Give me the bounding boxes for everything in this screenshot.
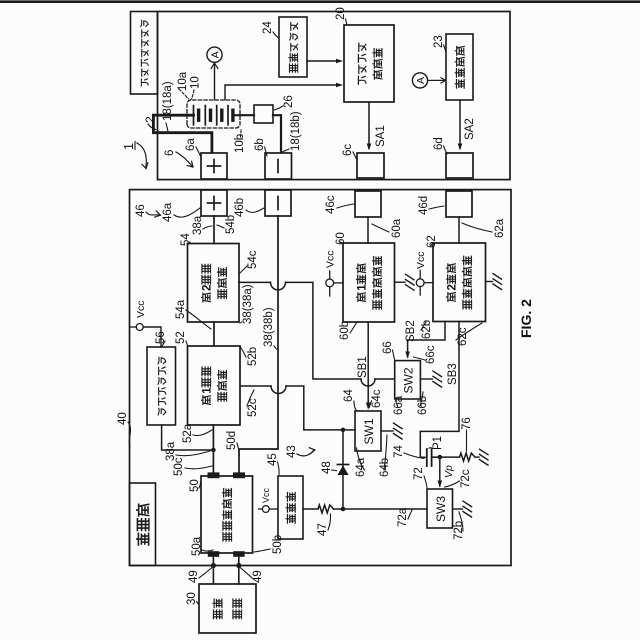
resistor 76 — [460, 453, 476, 461]
svg-text:40: 40 — [117, 412, 129, 425]
label 26 — [275, 95, 296, 110]
svg-text:1: 1 — [356, 284, 369, 291]
svg-text:38(38a): 38(38a) — [242, 284, 254, 324]
ground SW2 — [433, 371, 442, 387]
ammeter A1 — [207, 47, 222, 62]
svg-text:6: 6 — [164, 150, 176, 156]
svg-text:Vcc: Vcc — [261, 487, 271, 503]
label 18(18b) — [282, 111, 303, 152]
svg-text:A: A — [210, 51, 222, 58]
box 23 保護回路 — [446, 34, 473, 100]
charger terminal 46d — [446, 191, 472, 217]
battery cell group dashed box 10 — [187, 100, 240, 128]
label 18(18a) — [162, 81, 174, 131]
svg-text:50b: 50b — [272, 535, 284, 554]
wire SA1 — [367, 102, 387, 151]
label 46c — [325, 195, 354, 214]
svg-text:10: 10 — [190, 76, 202, 89]
wire 52c with hop over bus — [240, 386, 355, 430]
ammeter arrow wire — [211, 63, 218, 100]
svg-text:38(38b): 38(38b) — [263, 307, 275, 347]
label 充電器 — [137, 504, 149, 545]
svg-text:50a: 50a — [191, 536, 203, 556]
label 49 lower — [241, 568, 264, 583]
svg-text:50: 50 — [189, 479, 201, 492]
label 50d — [226, 431, 240, 455]
junction dots charger edge 49 — [211, 563, 242, 568]
battery - terminal 6b — [265, 153, 292, 179]
battery pack label tab — [131, 12, 158, 95]
label 54b — [217, 215, 237, 234]
svg-text:38a: 38a — [165, 441, 177, 461]
Vcc for regulator — [130, 300, 161, 347]
wire 46c to box60 — [367, 217, 369, 243]
svg-text:49: 49 — [252, 570, 264, 583]
label 62a — [462, 218, 506, 238]
svg-text:72: 72 — [413, 467, 425, 480]
label 62 — [426, 235, 438, 248]
svg-text:64: 64 — [343, 389, 355, 402]
svg-text:64a: 64a — [355, 457, 367, 477]
node dot regulator feed — [211, 448, 216, 453]
svg-text:66a: 66a — [393, 395, 405, 415]
box60 ground stub — [395, 281, 406, 283]
resistor 47 — [318, 505, 334, 513]
charger - terminal 46b — [265, 190, 291, 216]
label 38a top — [192, 215, 212, 235]
label 62c — [456, 323, 482, 346]
svg-text:46: 46 — [135, 204, 147, 217]
svg-text:2: 2 — [143, 116, 157, 123]
SW2 ground stub — [420, 378, 432, 380]
SW3 ground stub — [453, 508, 463, 510]
label 72c — [445, 469, 473, 488]
svg-text:6c: 6c — [342, 144, 354, 156]
label 64a — [355, 448, 367, 477]
resistor 76 ground stub — [475, 456, 479, 458]
label 45 — [267, 453, 279, 474]
svg-text:20: 20 — [335, 7, 347, 20]
wire negative to box26 and terminal — [233, 115, 281, 152]
label 30 — [186, 592, 199, 605]
label 46b — [234, 198, 264, 217]
Vcc for box62 — [415, 251, 433, 295]
svg-text:6b: 6b — [254, 138, 266, 151]
battery pack outer box 2 — [158, 12, 511, 180]
ground SW3 — [463, 501, 472, 517]
Vcc for box60 — [325, 250, 344, 296]
label 66c — [414, 345, 438, 364]
svg-text:Vcc: Vcc — [135, 300, 147, 318]
label 66 — [382, 341, 395, 360]
box 56 レギュレータ — [147, 347, 176, 425]
svg-text:62: 62 — [426, 235, 438, 248]
svg-text:38a: 38a — [192, 215, 204, 235]
SW1 control ground stub — [381, 430, 393, 432]
wire node to SW3 — [343, 508, 427, 510]
svg-text:72a: 72a — [397, 507, 409, 527]
switch SW3 — [427, 489, 453, 528]
box 30 外部電源 — [199, 584, 256, 633]
wires box50 to box30 — [213, 553, 238, 584]
label 49 upper — [188, 568, 212, 583]
label 50b — [254, 535, 284, 554]
svg-text:P1: P1 — [432, 436, 444, 450]
label 66b — [417, 392, 429, 415]
svg-text:30: 30 — [186, 592, 198, 605]
svg-text:54a: 54a — [175, 299, 187, 319]
ground box60 — [406, 274, 415, 290]
label 6d — [433, 137, 447, 154]
label 76 — [461, 417, 473, 451]
svg-text:SB3: SB3 — [447, 363, 459, 385]
label 50 — [189, 479, 201, 492]
diode 48 — [337, 465, 348, 476]
svg-text:52a: 52a — [182, 423, 194, 443]
label 24 — [262, 21, 279, 38]
label 60b — [339, 321, 357, 340]
svg-text:A: A — [415, 77, 427, 84]
svg-text:Vcc: Vcc — [325, 250, 337, 268]
charger label tab — [130, 483, 156, 566]
wire from box45 through resistor 47 — [303, 508, 318, 510]
svg-text:43: 43 — [286, 445, 298, 458]
capacitor P1 — [427, 449, 432, 466]
label バッテリパック — [141, 20, 148, 86]
wire positive 18(18a) staircase — [153, 115, 212, 152]
box 24 温度センサ — [279, 17, 307, 77]
svg-text:49: 49 — [188, 570, 200, 583]
svg-text:18(18a): 18(18a) — [162, 81, 174, 121]
capacitor lower wire — [432, 456, 460, 458]
ground SW1 — [394, 423, 403, 439]
label 38(38a) — [240, 284, 254, 324]
label 10b — [234, 129, 246, 153]
svg-text:SA1: SA1 — [375, 125, 387, 147]
svg-text:46a: 46a — [162, 202, 174, 222]
diode 48 wire — [342, 430, 344, 509]
Vp arrow into SW3 — [438, 457, 456, 487]
label 54 — [180, 233, 192, 246]
svg-text:50d: 50d — [226, 431, 238, 450]
label 52 — [175, 331, 188, 345]
svg-text:Vcc: Vcc — [415, 251, 427, 269]
box 62 第2信号受信制御部 — [433, 243, 486, 322]
A2 arrow into protection circuit — [428, 78, 446, 83]
label 6 — [164, 150, 193, 167]
text 第1信号受信制御部 — [356, 256, 382, 309]
label 46a — [162, 202, 200, 222]
ammeter A2 — [412, 73, 427, 88]
label 74 — [393, 445, 424, 459]
box 54 第2通電切替部 — [188, 244, 240, 323]
svg-text:56: 56 — [155, 331, 167, 344]
text 保護回路 — [455, 46, 464, 88]
charger + terminal 46a — [201, 190, 227, 216]
battery terminal 6c — [357, 153, 384, 178]
label 46 — [135, 204, 161, 217]
wire SA2 — [458, 100, 476, 151]
wire between box52 and box50 — [212, 425, 214, 473]
svg-text:48: 48 — [321, 461, 333, 474]
wire SB3 — [420, 322, 459, 458]
box 52 第1通電切替部 — [188, 346, 241, 425]
wire 54c with hop over bus — [239, 282, 395, 386]
pads box50 left — [208, 551, 245, 557]
switch SW1 — [355, 411, 381, 451]
svg-text:62b: 62b — [421, 320, 433, 339]
label 2 — [143, 116, 157, 130]
ground box62 — [493, 274, 502, 290]
label 46d — [418, 196, 444, 215]
text 第2信号受信制御部 — [446, 256, 472, 309]
wire 46d to box62 — [458, 217, 460, 243]
label 54a — [175, 299, 211, 329]
svg-text:66: 66 — [382, 341, 394, 354]
battery voltage sense wire to box20 — [225, 83, 343, 100]
svg-text:46d: 46d — [418, 196, 430, 215]
label 6b — [254, 138, 267, 156]
wire SB2 — [405, 320, 445, 358]
svg-text:64c: 64c — [371, 389, 383, 408]
svg-text:47: 47 — [317, 523, 329, 536]
svg-text:18(18b): 18(18b) — [290, 111, 302, 151]
label 6a — [185, 138, 201, 157]
charger terminal 46c — [355, 191, 381, 217]
label 72 — [413, 467, 427, 489]
text 第1通電切替部 — [201, 367, 227, 405]
current sense box 26 — [254, 105, 273, 123]
svg-text:10a: 10a — [177, 71, 189, 91]
label 6c — [342, 144, 357, 160]
label 60 — [335, 232, 347, 245]
box62 ground stub — [486, 281, 493, 283]
svg-text:SB2: SB2 — [405, 320, 417, 342]
svg-text:54c: 54c — [247, 250, 259, 269]
svg-text:24: 24 — [262, 21, 274, 34]
svg-text:26: 26 — [283, 95, 295, 108]
ground resistor 76 — [480, 449, 489, 465]
battery terminal 6d — [446, 153, 473, 178]
text 外部電源 — [213, 599, 242, 619]
svg-text:60a: 60a — [391, 218, 403, 238]
svg-text:23: 23 — [433, 35, 445, 48]
text 電力生成部 — [222, 488, 231, 541]
label 10 — [190, 76, 202, 99]
page edge line — [0, 0, 640, 3]
box 60 第1信号受信制御部 — [343, 243, 395, 322]
label 64 — [343, 389, 357, 411]
svg-text:54b: 54b — [225, 215, 237, 234]
label 20 — [335, 7, 347, 25]
label 1 — [122, 142, 148, 169]
battery + terminal 6a — [201, 153, 227, 179]
temp sensor arrow to box20 — [307, 59, 343, 64]
label 50c — [173, 457, 212, 476]
text レギュレータ — [158, 357, 166, 415]
label 62b — [421, 320, 433, 339]
svg-text:62c: 62c — [457, 327, 469, 346]
text 温度センサ — [289, 22, 298, 72]
svg-text:66b: 66b — [417, 396, 429, 415]
svg-text:6d: 6d — [433, 137, 445, 150]
label 64c — [369, 389, 383, 408]
label 52b — [241, 347, 260, 366]
switch SW2 — [395, 361, 421, 399]
bus 38b minus line — [239, 216, 278, 473]
svg-text:54: 54 — [180, 233, 192, 246]
svg-text:72c: 72c — [460, 469, 472, 488]
box 20 バッテリ制御部 — [344, 25, 394, 102]
text 第2通電切替部 — [201, 264, 227, 302]
label 47 — [317, 514, 331, 536]
svg-text:SW1: SW1 — [362, 418, 376, 444]
label 54c — [240, 250, 259, 273]
svg-text:SA2: SA2 — [464, 118, 476, 140]
Vcc for box45 — [259, 487, 279, 512]
text 報知部 — [286, 492, 295, 523]
svg-text:SW3: SW3 — [434, 496, 448, 522]
figure label FIG. 2 — [518, 299, 534, 338]
label 38a lower — [165, 441, 210, 461]
battery cells — [194, 106, 233, 125]
label 23 — [433, 35, 446, 51]
pad 38b at box50 — [233, 472, 245, 478]
label 66a — [393, 395, 405, 415]
wire SB1 into SW1 — [357, 322, 371, 410]
pad 38a at box50 — [208, 472, 220, 478]
wire + line 38a right — [213, 216, 215, 244]
svg-text:SB1: SB1 — [357, 356, 369, 378]
label 10a — [177, 71, 189, 99]
label 72b — [453, 512, 465, 540]
wire resistor to node — [334, 508, 344, 510]
svg-text:2: 2 — [446, 284, 459, 290]
label 64b — [379, 435, 391, 477]
wire between box54 and box52 — [213, 322, 215, 346]
label 56 — [155, 331, 167, 347]
svg-text:62a: 62a — [494, 218, 506, 238]
svg-text:52b: 52b — [247, 347, 259, 366]
label 40 — [117, 412, 131, 447]
svg-text:1: 1 — [122, 143, 136, 150]
label 52a — [182, 423, 212, 443]
svg-text:66c: 66c — [425, 345, 437, 364]
svg-text:1: 1 — [201, 387, 214, 394]
node dot P1 — [438, 455, 443, 460]
svg-text:60b: 60b — [339, 321, 351, 340]
label 38(38b) — [263, 307, 278, 350]
regulator feed wire — [162, 425, 213, 450]
label 72a — [397, 507, 412, 527]
svg-text:74: 74 — [393, 445, 405, 458]
box 45 報知部 — [278, 476, 303, 539]
node dot diode branch — [341, 428, 346, 433]
text バッテリ制御部 — [358, 43, 382, 84]
svg-text:SW2: SW2 — [402, 367, 416, 393]
label 48 — [321, 461, 337, 474]
label 43 with arrow — [286, 445, 315, 458]
svg-text:6a: 6a — [185, 138, 197, 151]
charger outer box 40 — [130, 190, 512, 566]
box 50 電力生成部 — [201, 476, 253, 553]
label 60a — [372, 218, 403, 238]
svg-text:2: 2 — [201, 285, 214, 291]
svg-text:46c: 46c — [325, 195, 337, 214]
svg-text:FIG. 2: FIG. 2 — [518, 299, 534, 338]
node dot 47 — [341, 507, 346, 512]
svg-text:45: 45 — [267, 453, 279, 466]
label 52c — [247, 390, 259, 417]
label P1 — [429, 436, 444, 450]
svg-text:52: 52 — [175, 331, 187, 344]
label 50a — [191, 536, 213, 556]
svg-text:Vp: Vp — [443, 465, 455, 478]
svg-text:76: 76 — [461, 417, 473, 430]
